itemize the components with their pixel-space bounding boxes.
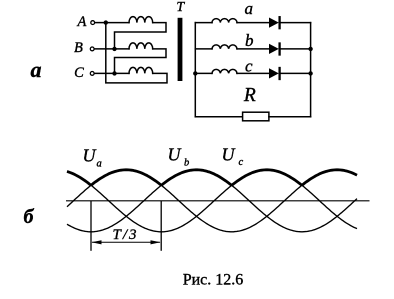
svg-text:a: a [97, 158, 102, 169]
wire B terminal to junction [94, 48, 114, 50]
winding secondary a [212, 19, 237, 23]
label Ua [83, 145, 102, 169]
svg-text:C: C [74, 65, 84, 81]
wire bottom left to resistor [195, 116, 242, 118]
label Ub [168, 145, 190, 169]
diode Da [269, 17, 280, 28]
envelope bold Uc tail [67, 172, 91, 186]
wire A junction to winding [106, 22, 129, 24]
svg-text:b: b [245, 31, 254, 50]
svg-text:c: c [245, 56, 253, 75]
wire diode a to cathode bus [281, 22, 311, 24]
svg-text:T/3: T/3 [113, 227, 139, 243]
wire winding B end, return to node C [115, 49, 167, 74]
wire a to diode [237, 22, 269, 24]
commutation marker line 1 [90, 201, 92, 251]
winding secondary b [212, 45, 237, 49]
sine Ua thin [67, 170, 357, 232]
commutation marker line 2 [160, 201, 162, 251]
svg-text:R: R [243, 85, 256, 106]
svg-text:U: U [168, 145, 182, 165]
winding primary B [129, 43, 153, 49]
cathode bus (right vertical) [310, 23, 312, 117]
wire C junction to winding [115, 72, 130, 74]
wire b to diode [237, 48, 269, 50]
svg-text:c: c [239, 157, 244, 168]
secondary neutral bus (left vertical) [194, 23, 196, 117]
wire secondary b lead [195, 48, 212, 50]
resistor R [243, 112, 269, 121]
envelope bold Uc [232, 170, 302, 186]
label Uc [222, 145, 244, 168]
transformer core T [178, 18, 183, 81]
time axis [66, 200, 370, 202]
svg-text:B: B [74, 40, 83, 56]
wire B junction to winding [115, 48, 130, 50]
winding primary A [129, 17, 153, 23]
svg-text:T: T [176, 0, 185, 15]
svg-text:а: а [31, 57, 42, 82]
envelope bold Ua second [302, 170, 357, 186]
wire diode c to cathode bus [281, 72, 311, 74]
wire C terminal to junction [94, 72, 114, 74]
wire secondary c lead [195, 72, 212, 74]
wire winding C end, return to node A [106, 23, 167, 83]
wire winding A end, return to node B [115, 23, 167, 49]
terminal A [91, 21, 95, 25]
winding secondary c [212, 69, 237, 73]
junction dot B [112, 47, 116, 51]
sine Ub thin [67, 170, 357, 232]
junction dot c on cathode bus [308, 71, 312, 75]
sine Uc thin [67, 170, 357, 232]
junction dot b on cathode bus [308, 47, 312, 51]
svg-text:A: A [76, 14, 86, 30]
svg-text:b: b [184, 158, 189, 169]
wire A terminal to junction [95, 22, 106, 24]
svg-text:a: a [245, 0, 254, 18]
wire c to diode [237, 72, 269, 74]
envelope bold Ub [161, 170, 231, 186]
diode Dc [269, 68, 280, 79]
envelope bold Ua [91, 170, 161, 186]
svg-text:U: U [83, 145, 97, 165]
wire resistor to bottom right [269, 116, 311, 118]
svg-text:U: U [222, 145, 236, 165]
winding primary C [129, 67, 153, 73]
junction dot C [112, 71, 116, 75]
wire secondary a lead [195, 22, 212, 24]
terminal B [90, 47, 94, 51]
terminal C [90, 72, 94, 76]
wire diode b to cathode bus [281, 48, 311, 50]
svg-text:Рис. 12.6: Рис. 12.6 [183, 272, 244, 289]
diode Db [269, 44, 280, 55]
svg-text:б: б [24, 206, 35, 228]
junction dot A [104, 20, 108, 24]
dimension arrow T/3 [92, 240, 161, 244]
junction dot c on neutral bus [193, 71, 197, 75]
